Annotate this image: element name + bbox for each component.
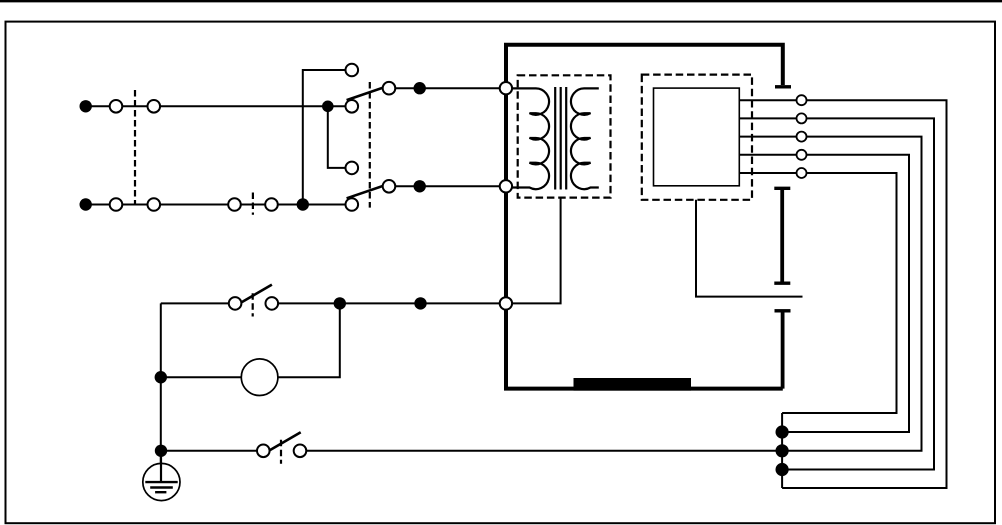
- PSU terminal neutral: [500, 180, 512, 192]
- bus junction dot 2: [776, 444, 789, 457]
- switch S2 contact right: [294, 445, 307, 458]
- switch S2 contact left: [257, 445, 270, 458]
- transformer bottom lead wire: [511, 198, 561, 304]
- output wire 4: [739, 155, 909, 432]
- output terminal 1: [797, 95, 807, 105]
- output terminal 5: [797, 168, 807, 178]
- switch S1 contact right: [266, 297, 279, 310]
- indicator lamp: [241, 359, 278, 396]
- fuse contact F2: [265, 198, 278, 211]
- selector blade upper: [347, 88, 384, 101]
- output wire 1: [739, 100, 946, 488]
- junction dot earth branch: [155, 445, 167, 457]
- power supply chassis thick outline: [506, 45, 783, 389]
- junction dot live lead: [414, 82, 426, 94]
- wire selector common upper to PSU: [389, 87, 506, 89]
- regulator module U1 dashed enclosure: [642, 75, 752, 200]
- connector contact L1: [110, 100, 123, 113]
- node A junction dot: [297, 198, 309, 210]
- output wire 2: [739, 118, 934, 469]
- earth wire left segment: [161, 450, 257, 452]
- selector blade lower: [347, 186, 384, 199]
- output terminal 2: [797, 113, 807, 123]
- bus junction dot 1: [776, 425, 789, 438]
- isolation electrode middle (bar-line-bar): [774, 188, 790, 283]
- transformer T1 shield box dashed: [518, 75, 611, 197]
- PSU terminal lamp feed: [500, 297, 512, 309]
- earth wire right segment to bus: [306, 450, 782, 452]
- output return bus: [781, 413, 783, 488]
- wire N input: [86, 204, 346, 206]
- junction dot lamp riser: [334, 297, 346, 309]
- U1 ground lead and capacitor plate: [696, 200, 803, 297]
- selector tap 4: [346, 198, 359, 211]
- switch S1 mechanical link dashed line: [252, 293, 254, 316]
- wire L input: [86, 105, 346, 107]
- connector contact N2: [148, 198, 161, 211]
- wire lamp left lead: [161, 376, 242, 378]
- wire riser to selector tap 1: [303, 70, 346, 205]
- wire lamp feed left segment: [161, 302, 229, 304]
- selector tap 3: [346, 162, 359, 175]
- output terminal 4: [797, 150, 807, 160]
- transformer T1 core: [555, 87, 566, 190]
- connector boundary dashed line (mains plug): [134, 90, 136, 205]
- selector tap 1: [346, 64, 359, 77]
- selector common upper contact: [383, 82, 396, 95]
- output terminal 3: [797, 132, 807, 142]
- protective earth ground symbol: [143, 454, 180, 501]
- PSU terminal live: [500, 82, 512, 94]
- node B junction dot: [322, 101, 334, 113]
- wire left vertical rail: [160, 303, 162, 481]
- switch S2 blade: [270, 432, 301, 450]
- wire selector common lower to PSU: [389, 185, 506, 187]
- plug pin L (filled): [80, 100, 92, 112]
- selector tap 2: [346, 100, 359, 113]
- wire lamp feed right segment: [278, 302, 506, 304]
- output wire 5: [739, 173, 896, 413]
- plug pin N (filled): [80, 198, 92, 210]
- junction dot lamp left: [155, 371, 167, 383]
- connector contact L2: [148, 100, 161, 113]
- fuse contact F1: [228, 198, 241, 211]
- junction dot lamp feed: [414, 297, 426, 309]
- wire lamp right lead riser: [278, 303, 340, 377]
- chassis heatsink bar: [574, 378, 692, 391]
- transformer T1 secondary winding: [571, 88, 599, 189]
- connector contact N1: [110, 198, 123, 211]
- wire from node B to selector tap 3: [328, 106, 346, 168]
- fuse holder boundary dashed line: [252, 193, 254, 215]
- bus junction dot 3: [776, 463, 789, 476]
- output wire 3: [739, 137, 921, 451]
- electrode terminal bottom to chassis: [775, 311, 791, 389]
- switch S1 blade: [242, 285, 272, 303]
- junction dot neutral lead: [414, 180, 426, 192]
- electrode terminal top (T-bar): [775, 85, 791, 88]
- switch S2 mechanical link dashed line: [280, 440, 282, 464]
- switch S1 contact left: [229, 297, 242, 310]
- regulator IC U1 body: [654, 88, 740, 186]
- selector common lower contact: [383, 180, 396, 193]
- voltage selector mechanical link dashed line: [369, 82, 371, 208]
- transformer T1 primary winding: [507, 88, 549, 189]
